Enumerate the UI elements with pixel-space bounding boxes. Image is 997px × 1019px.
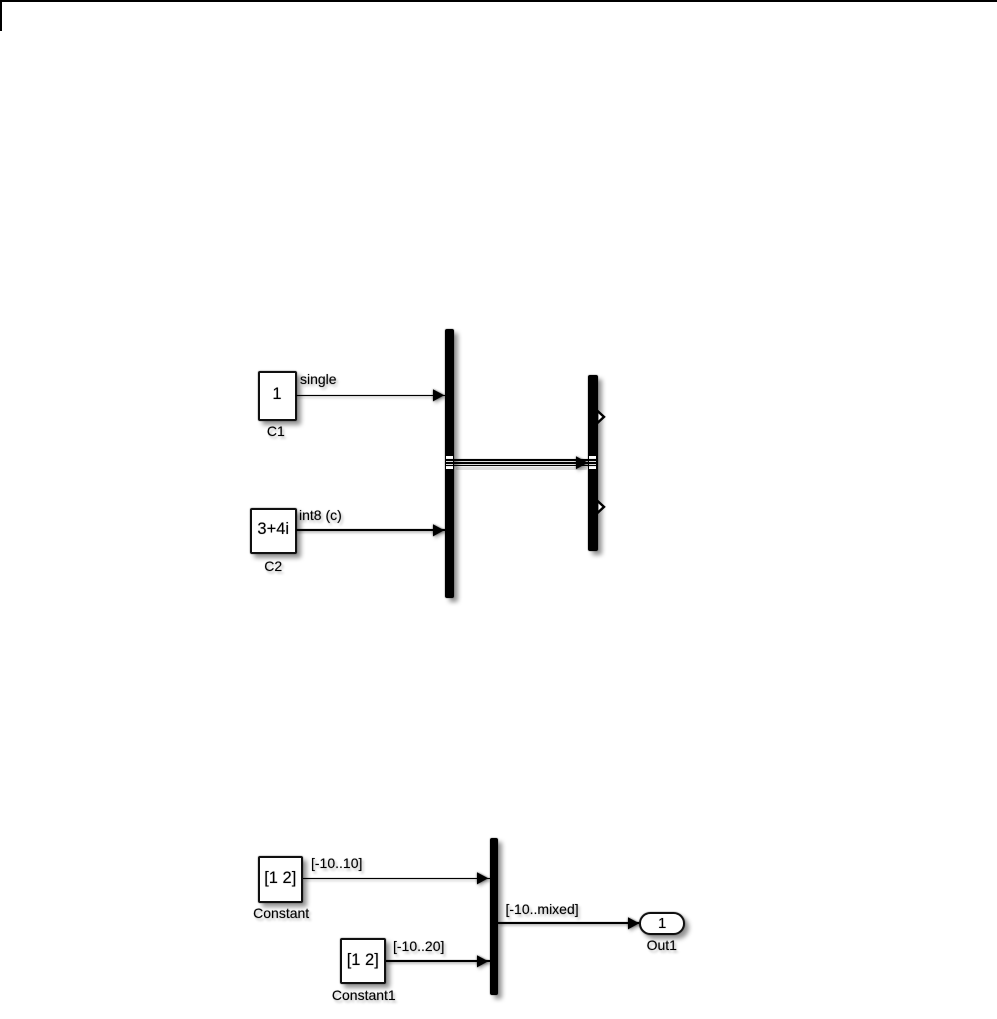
bus selector bar: [588, 375, 598, 551]
constant block C1: [258, 371, 297, 421]
top window border: [0, 0, 997, 2]
signal label [-10..20]: [393, 939, 444, 953]
label C2: [264, 559, 282, 573]
bus creator bar: [445, 329, 454, 598]
bus arrowhead: [576, 456, 589, 470]
arrowhead wire Out1: [628, 917, 640, 930]
wire Constant1 to mux: [386, 960, 491, 962]
outport block Out1: [639, 912, 685, 935]
signal label [-10..mixed]: [506, 902, 579, 916]
label Constant: [253, 906, 309, 920]
signal label single: [300, 372, 337, 386]
constant block C2: [250, 508, 297, 555]
signal label [-10..10]: [311, 856, 362, 870]
wire C1 to bus creator: [296, 395, 446, 397]
white cut in bus selector at bus port: [589, 456, 596, 468]
bus selector output port 1 (chevron): [596, 409, 609, 425]
arrowhead wire C2: [433, 524, 445, 537]
label Out1: [647, 938, 677, 952]
bus shadow: [456, 467, 587, 469]
mux bar: [490, 838, 499, 996]
arrowhead wire Constant1: [477, 955, 489, 968]
white cut in bus creator at bus port: [446, 456, 453, 468]
bus signal line top: [446, 459, 597, 460]
left border stub: [0, 0, 2, 31]
constant block Constant1: [340, 938, 387, 984]
wire mux to Out1: [498, 922, 640, 924]
signal label int8 (c): [299, 508, 342, 522]
wire C2 to bus creator: [296, 529, 446, 531]
wire Constant to mux: [303, 878, 491, 879]
arrowhead wire Constant: [477, 872, 489, 885]
bus signal line middle: [446, 462, 597, 463]
bus selector output port 2 (chevron): [596, 499, 609, 515]
label C1: [267, 424, 285, 438]
label Constant1: [332, 988, 396, 1002]
constant block Constant: [258, 856, 304, 903]
arrowhead wire C1: [433, 389, 445, 402]
bus signal line bottom: [446, 465, 597, 466]
